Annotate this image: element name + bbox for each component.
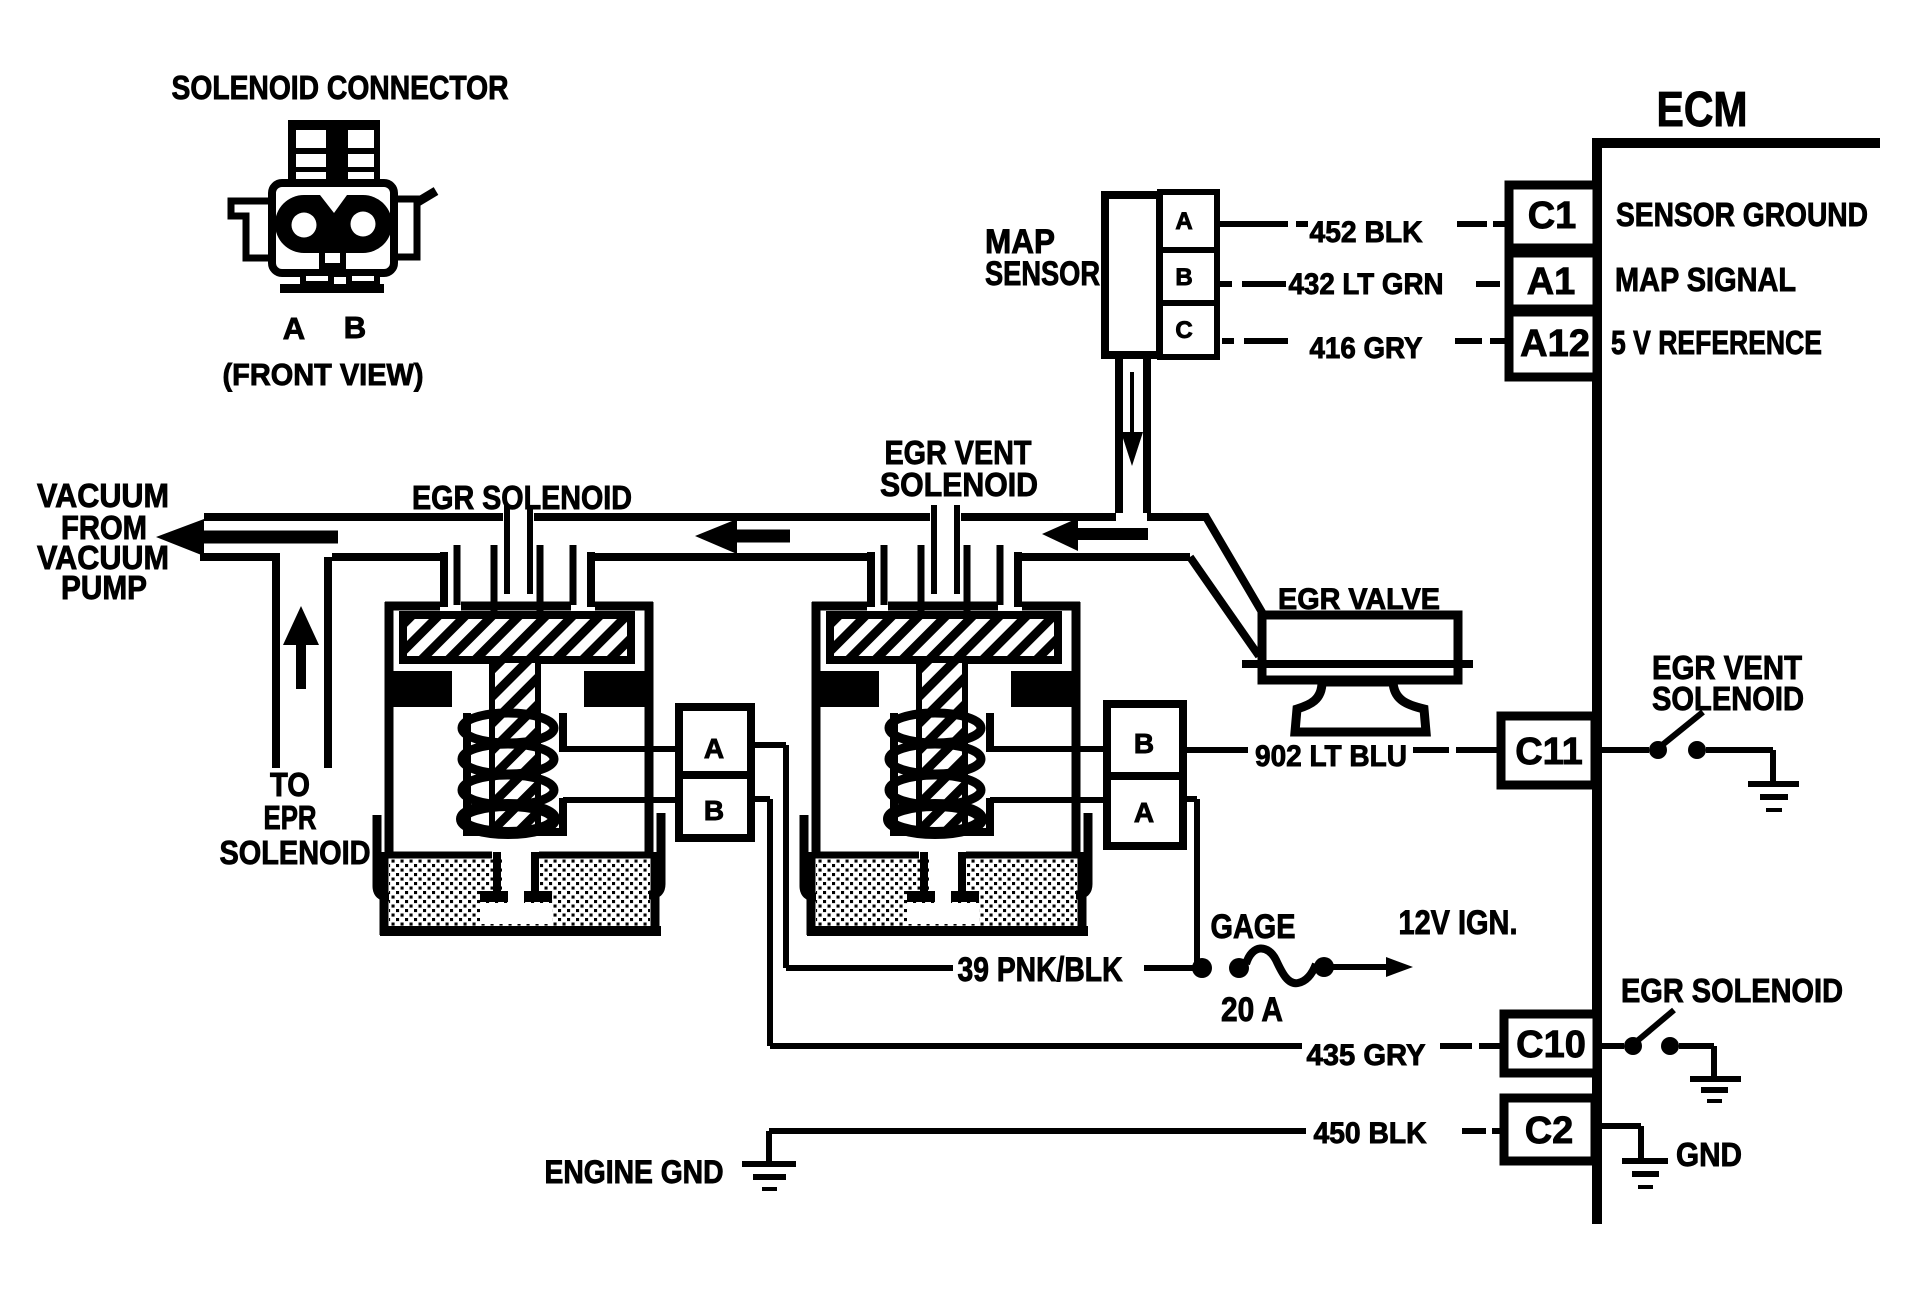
svg-text:20 A: 20 A: [1221, 991, 1283, 1029]
ground symbol: [1690, 1076, 1741, 1082]
C2 ground wire: [1600, 1123, 1641, 1129]
flow arrow down: [1130, 372, 1134, 434]
ECM pin A1: [1509, 253, 1597, 309]
wire from EGR solenoid pin A to fuse: [751, 742, 786, 748]
svg-text:SENSOR GROUND: SENSOR GROUND: [1616, 196, 1868, 233]
svg-text:GAGE: GAGE: [1211, 908, 1296, 946]
svg-text:C: C: [1175, 317, 1192, 344]
svg-text:TO: TO: [270, 766, 310, 803]
connector feet: [280, 284, 384, 293]
EGR vent solenoid connector B/A: [1107, 704, 1183, 846]
arrow to 12V IGN: [1333, 964, 1386, 970]
EGR valve body: [1262, 615, 1458, 680]
svg-text:B: B: [1175, 264, 1192, 291]
ground symbol: [1622, 1158, 1668, 1164]
ground symbol: [1748, 781, 1799, 787]
ECM pin C10: [1504, 1014, 1597, 1073]
svg-text:B: B: [704, 795, 724, 826]
MAP sensor body: [1105, 195, 1160, 355]
svg-text:A: A: [704, 733, 724, 764]
ECM boundary line: [1597, 138, 1880, 148]
wire 435 GRY dashes: [1440, 1043, 1503, 1049]
svg-text:452 BLK: 452 BLK: [1310, 216, 1423, 249]
solenoid connector (front view) drawing: [231, 120, 436, 293]
wire from EGR vent solenoid pin A: [1183, 796, 1197, 802]
svg-text:5 V REFERENCE: 5 V REFERENCE: [1611, 324, 1822, 361]
MAP vacuum tube down: [1119, 355, 1147, 513]
svg-text:EGR SOLENOID: EGR SOLENOID: [1621, 972, 1843, 1009]
svg-text:SOLENOID CONNECTOR: SOLENOID CONNECTOR: [172, 69, 509, 106]
svg-text:MAP SIGNAL: MAP SIGNAL: [1615, 261, 1796, 298]
connector left tab: [231, 201, 272, 258]
svg-text:PUMP: PUMP: [61, 569, 147, 606]
up arrow: [283, 606, 319, 645]
flow arrow right: [1042, 518, 1078, 551]
EGR valve stem: [1295, 682, 1426, 732]
EGR vent solenoid canister: [804, 505, 1106, 935]
svg-text:B: B: [1134, 728, 1154, 759]
svg-text:ENGINE GND: ENGINE GND: [545, 1154, 724, 1190]
MAP sensor connector A/B/C: [1160, 192, 1217, 357]
svg-text:SOLENOID: SOLENOID: [1652, 680, 1804, 717]
svg-text:A12: A12: [1520, 323, 1590, 365]
svg-text:39 PNK/BLK: 39 PNK/BLK: [958, 951, 1123, 989]
engine ground symbol: [766, 1131, 772, 1163]
connector body: [272, 183, 394, 273]
svg-text:450 BLK: 450 BLK: [1314, 1117, 1427, 1150]
svg-text:A: A: [1175, 208, 1192, 235]
EGR vent solenoid switch: [1602, 747, 1649, 753]
svg-text:435 GRY: 435 GRY: [1307, 1039, 1426, 1072]
svg-text:SOLENOID: SOLENOID: [220, 834, 371, 871]
wire to fuse: [1144, 965, 1196, 971]
EGR solenoid canister: [377, 505, 679, 935]
svg-text:A: A: [1134, 797, 1154, 828]
svg-text:A1: A1: [1527, 261, 1576, 303]
ECM pin C1: [1509, 185, 1597, 248]
svg-text:A: A: [283, 311, 305, 346]
svg-text:902 LT BLU: 902 LT BLU: [1255, 740, 1407, 773]
svg-text:EPR: EPR: [264, 799, 317, 836]
svg-text:432 LT GRN: 432 LT GRN: [1289, 268, 1444, 301]
flow arrow mid: [695, 519, 737, 554]
vacuum tube upper line: [204, 513, 1116, 521]
wire 902 LT BLU from pin B: [1183, 747, 1501, 753]
svg-text:C2: C2: [1525, 1110, 1574, 1152]
EGR solenoid switch: [1602, 1043, 1624, 1049]
svg-text:SENSOR: SENSOR: [985, 255, 1100, 293]
svg-text:ECM: ECM: [1657, 83, 1748, 137]
svg-text:EGR SOLENOID: EGR SOLENOID: [412, 479, 632, 516]
svg-text:GND: GND: [1676, 1136, 1742, 1173]
wire 432 LT GRN: [1220, 281, 1500, 287]
svg-text:C1: C1: [1528, 195, 1577, 237]
svg-text:(FRONT VIEW): (FRONT VIEW): [223, 357, 424, 392]
junction dots: [1192, 958, 1212, 978]
terminal cavities: [275, 195, 392, 253]
vacuum tube lower line: [200, 553, 1190, 561]
svg-text:SOLENOID: SOLENOID: [880, 466, 1038, 503]
flow arrow to vacuum pump: [156, 519, 204, 556]
wire 416 GRY: [1222, 338, 1507, 344]
ECM pin C11: [1501, 716, 1595, 785]
wire 450 BLK: [769, 1128, 1306, 1134]
GAGE fuse: [1246, 948, 1316, 983]
svg-text:B: B: [344, 310, 366, 345]
svg-text:416 GRY: 416 GRY: [1310, 332, 1423, 365]
svg-text:C10: C10: [1516, 1024, 1586, 1066]
svg-text:C11: C11: [1515, 731, 1583, 773]
ECM pin A12: [1509, 312, 1597, 377]
diagonal tube to EGR valve: [1147, 517, 1266, 619]
branch to EPR solenoid: [276, 553, 328, 768]
ECM pin C2: [1504, 1098, 1595, 1161]
connector right tab: [394, 199, 417, 257]
wire 452 BLK: [1220, 221, 1509, 227]
wire from EGR solenoid pin B (435 GRY): [751, 796, 770, 802]
EGR solenoid connector A/B: [679, 707, 751, 838]
connector lock tower: [288, 120, 380, 183]
svg-text:12V IGN.: 12V IGN.: [1399, 904, 1518, 942]
